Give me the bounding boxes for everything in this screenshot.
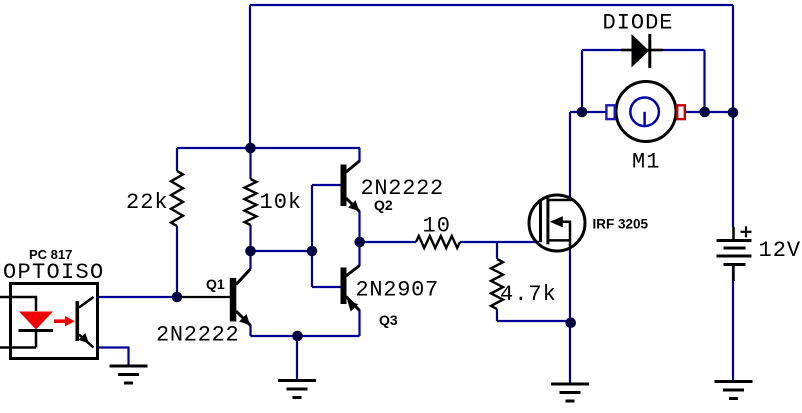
node bases junction [307, 246, 318, 257]
wire battery to ground [732, 265, 734, 381]
svg-text:2N2907: 2N2907 [356, 278, 439, 303]
svg-text:Q1: Q1 [206, 276, 225, 292]
wire Q3 top lead to output node [358, 242, 360, 266]
wire ground drop emitters [296, 336, 298, 380]
node output junction [354, 237, 365, 248]
battery B1 bottom lead [732, 265, 735, 282]
resistor 4.7k [491, 259, 503, 309]
wire Q1 collector up [249, 251, 251, 269]
resistor 22k [171, 171, 183, 226]
wire Q1 base [177, 296, 230, 298]
wire output to 10 ohm [360, 241, 416, 243]
opto phototransistor [76, 297, 94, 348]
node motor right junction [699, 107, 710, 118]
MOSFET body arm [562, 222, 571, 241]
ground opto [110, 366, 148, 383]
wire diode horizontal [582, 49, 705, 51]
optocoupler PC817 box [11, 284, 98, 359]
wire 10k bottom lead [249, 225, 251, 251]
wire opto collector to Q1 base node [98, 296, 177, 298]
MOSFET gate bar [539, 200, 542, 242]
svg-text:22k: 22k [126, 190, 169, 215]
svg-text:4.7k: 4.7k [500, 282, 557, 307]
wire motor left branch [570, 111, 606, 113]
battery B1 plates [717, 241, 752, 265]
wire 22k bottom lead to Q1 base node [176, 226, 178, 297]
wire 22k top lead [176, 148, 178, 171]
diode D1 cathode bar [648, 34, 651, 68]
wire opto pin2 cathode [0, 331, 36, 348]
svg-text:IRF 3205: IRF 3205 [593, 217, 649, 232]
diode D1 triangle [632, 34, 650, 68]
transistor Q2 2N2222 [341, 161, 360, 212]
wire opto pin1 anode [0, 297, 36, 311]
wire MOSFET source to ground [569, 248, 571, 384]
wire right +12V drop to battery [732, 5, 734, 227]
wire diode left vertical [581, 50, 583, 112]
ground battery [715, 382, 753, 399]
diode D1 lead [621, 49, 663, 52]
wire Q2 emitter to output node [358, 211, 360, 242]
opto light arrow red [54, 316, 75, 326]
node emitter ground junction [292, 331, 303, 342]
MOSFET source arm [548, 240, 570, 248]
LED anode-cathode red triangle [19, 312, 53, 330]
LED cathode bar [19, 329, 54, 332]
wire motor right lead [684, 111, 733, 113]
resistor 10k [245, 179, 257, 225]
wire 4.7k bottom lead [496, 309, 498, 321]
wire node Q1-collector to bases [251, 250, 313, 252]
wire top rail +12V [250, 4, 733, 6]
node Q1 base junction [172, 292, 183, 303]
MOSFET body arrow [550, 216, 563, 227]
MOSFET channel bar [546, 198, 549, 244]
motor M1 left terminal [606, 105, 614, 119]
MOSFET drain arm [548, 197, 570, 200]
wire main vertical from top rail [249, 5, 251, 148]
motor M1 right terminal [677, 105, 685, 119]
svg-text:M1: M1 [632, 150, 660, 175]
wire bases vertical [311, 185, 313, 287]
svg-text:Q3: Q3 [379, 312, 398, 328]
ground MOSFET source [551, 384, 589, 401]
wire MOSFET drain up to motor node [569, 112, 571, 197]
wire upper rail to transistors [177, 147, 360, 149]
node +12V rail junction [728, 107, 739, 118]
node source-4.7k junction [565, 317, 576, 328]
svg-text:2N2222: 2N2222 [156, 323, 239, 348]
motor M1 body [616, 82, 676, 142]
svg-text:OPTOISO: OPTOISO [3, 260, 105, 285]
MOSFET U1 IRF3205 circle [529, 195, 585, 251]
wire Q2 base [312, 184, 341, 186]
node rail-10k junction [245, 143, 256, 154]
wire diode right vertical [703, 50, 705, 112]
wire Q3 collector down [358, 310, 360, 336]
svg-text:10: 10 [423, 214, 451, 239]
svg-text:12V: 12V [759, 238, 802, 263]
svg-text:10k: 10k [260, 190, 303, 215]
node Q1 collector junction [245, 246, 256, 257]
wire Q1 emitter stub [249, 325, 251, 336]
battery B1 plus sign [741, 226, 752, 237]
wire Q3 base [312, 286, 341, 288]
wire 4.7k top lead [496, 242, 498, 259]
wire 10k top lead [249, 148, 251, 179]
wire Q2 collector to rail [358, 148, 360, 162]
motor M1 inner circle [630, 98, 659, 128]
ground emitters [278, 381, 316, 398]
node motor left junction [577, 107, 588, 118]
resistor 10 [416, 236, 460, 248]
svg-text:DIODE: DIODE [603, 11, 674, 36]
svg-text:2N2222: 2N2222 [361, 176, 444, 201]
wire emitter row to ground [251, 335, 360, 337]
transistor Q3 2N2907 [341, 266, 360, 312]
transistor Q1 2N2222 [230, 269, 251, 326]
wire 4.7k to source node [497, 320, 571, 322]
wire 10 ohm to gate [460, 241, 539, 243]
wire opto emitter out [98, 348, 129, 367]
battery B1 top lead [732, 227, 735, 240]
